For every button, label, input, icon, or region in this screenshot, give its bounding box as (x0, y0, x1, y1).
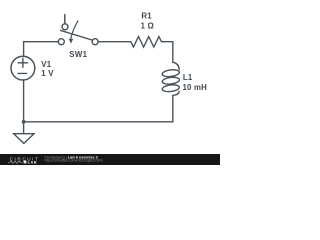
junction node (22, 120, 26, 124)
CircuitLab logo: LAB (24, 161, 27, 164)
switch SW1 terminals (58, 39, 64, 45)
switch SW1 arrowhead (69, 39, 74, 44)
wire L1 bottom to bottom rail (24, 95, 173, 121)
ground (14, 134, 34, 144)
svg-text:10 mH: 10 mH (183, 83, 208, 92)
svg-text:LAB: LAB (28, 160, 37, 164)
switch SW1 stub (64, 15, 66, 24)
svg-text:1 V: 1 V (41, 69, 54, 78)
switch SW1 blade (61, 30, 92, 40)
voltage source V1 (11, 56, 35, 80)
CircuitLab logo: resistor zigzag (8, 161, 23, 164)
svg-text:V1: V1 (41, 60, 51, 69)
resistor R1 (131, 37, 162, 47)
svg-text:http://circuitlab.com/c/62s2g6: http://circuitlab.com/c/62s2g6k2c9h3 (45, 159, 103, 163)
wire switch right terminal to R1 (98, 41, 131, 43)
wire V1 bottom to junction (23, 80, 25, 122)
switch SW1 arrow arc (71, 21, 78, 39)
bottom bar (0, 154, 220, 165)
wire R1 to L1 top (162, 42, 173, 63)
svg-text:R1: R1 (141, 12, 152, 21)
wire junction to ground (23, 122, 25, 134)
labels (41, 12, 207, 93)
svg-text:1 Ω: 1 Ω (141, 22, 154, 31)
inductor L1 (173, 62, 179, 69)
svg-text:L1: L1 (183, 73, 193, 82)
svg-text:SW1: SW1 (69, 50, 87, 59)
wire top-left from V1 top to switch left terminal (24, 42, 59, 56)
